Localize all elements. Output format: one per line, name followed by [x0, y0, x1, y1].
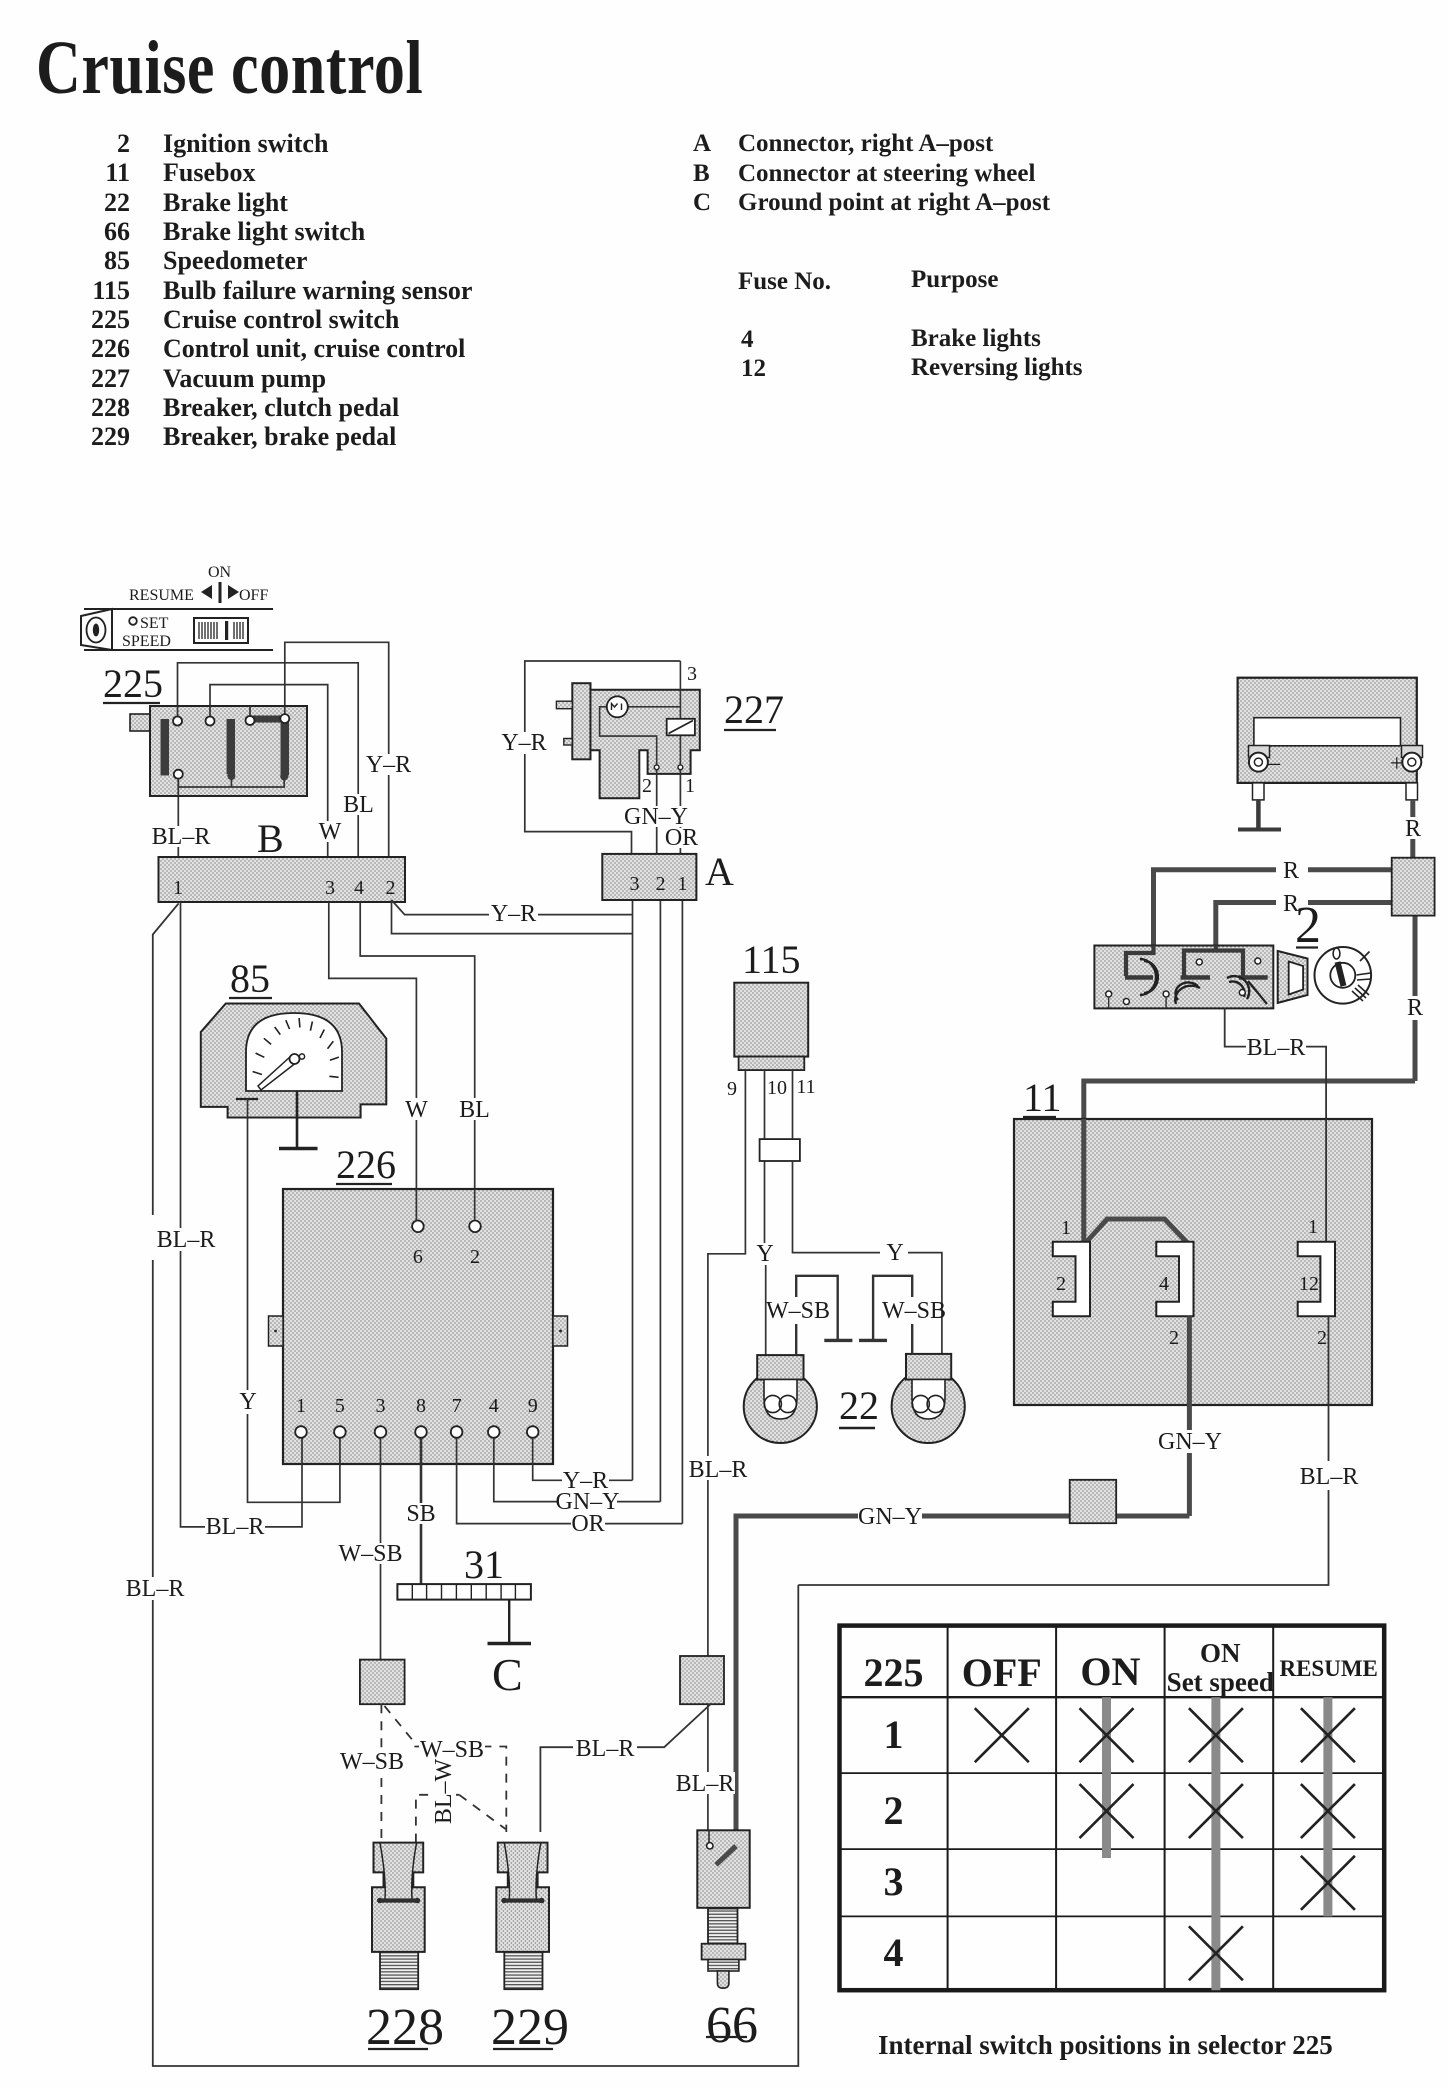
- dashed wire W-SB junction diagonal to 229: [385, 1706, 415, 1742]
- svg-text:SET: SET: [140, 615, 169, 632]
- wire B pin3 jog to 226 pin6 (W): [329, 902, 417, 1221]
- svg-text:2: 2: [1056, 1273, 1066, 1295]
- label OR (pin7): [571, 1513, 605, 1534]
- battery: [1238, 678, 1417, 783]
- wire SB 226 pin8 to ground strip 31: [420, 1438, 423, 1584]
- svg-text:2: 2: [656, 873, 666, 895]
- svg-text:6: 6: [413, 1246, 423, 1268]
- svg-text:R: R: [1405, 816, 1421, 842]
- 226 top pins 6 and 2: [412, 1221, 424, 1233]
- ignition switch 2 box: [1094, 946, 1273, 1009]
- junction box on GN-Y run: [1070, 1480, 1117, 1523]
- label BL-R (left loop upper): [158, 1228, 215, 1251]
- svg-text:BL–R: BL–R: [1300, 1464, 1359, 1490]
- svg-text:11: 11: [1023, 1075, 1062, 1120]
- legend fuse table: [738, 266, 1083, 382]
- wire A pin3 vertical down to 226 pin9 level: [632, 900, 634, 1480]
- label W-SB (pin3): [341, 1543, 400, 1564]
- svg-text:1: 1: [1308, 1216, 1318, 1238]
- label BL-W (rotated): [432, 1764, 455, 1821]
- svg-text:BL–R: BL–R: [152, 824, 211, 850]
- svg-text:RESUME: RESUME: [1279, 1656, 1377, 1681]
- pump pin circles: [654, 765, 659, 770]
- svg-text:1: 1: [884, 1712, 904, 1757]
- svg-text:GN–Y: GN–Y: [1158, 1429, 1222, 1455]
- wire R junction down right side: [1413, 916, 1418, 996]
- svg-text:226: 226: [336, 1142, 396, 1187]
- svg-text:228: 228: [366, 1999, 444, 2056]
- breaker 228 body: [372, 1843, 425, 1990]
- svg-text:5: 5: [335, 1395, 345, 1417]
- svg-text:229: 229: [491, 1999, 569, 2056]
- svg-text:31: 31: [464, 1542, 504, 1587]
- svg-text:BL–R: BL–R: [157, 1227, 216, 1253]
- svg-text:12: 12: [741, 355, 766, 382]
- svg-text:3: 3: [630, 873, 640, 895]
- breaker 229 body: [496, 1843, 549, 1990]
- ground strip 31: [397, 1584, 531, 1600]
- svg-text:W–SB: W–SB: [338, 1541, 402, 1567]
- svg-text:Y: Y: [756, 1241, 773, 1267]
- svg-text:22: 22: [104, 188, 130, 217]
- svg-text:SB: SB: [406, 1501, 435, 1527]
- brake light switch 66 body: [697, 1830, 749, 1908]
- thick wire GN-Y fuse4 down: [1187, 1316, 1192, 1516]
- svg-text:Cruise control: Cruise control: [36, 26, 423, 110]
- svg-text:22: 22: [839, 1383, 879, 1428]
- junction box above 228: [360, 1660, 405, 1705]
- svg-text:C: C: [693, 189, 711, 216]
- big loop wire BL-R left side and bottom: [153, 903, 799, 2066]
- inline connector on Y wires: [760, 1139, 800, 1161]
- label SB: [406, 1503, 436, 1524]
- svg-text:8: 8: [416, 1395, 426, 1417]
- connector A bar: [602, 854, 696, 900]
- svg-text:2: 2: [470, 1246, 480, 1268]
- label Y-R (pin9): [562, 1470, 609, 1491]
- svg-text:66: 66: [706, 1997, 758, 2054]
- svg-text:2: 2: [117, 129, 130, 158]
- svg-text:A: A: [705, 849, 734, 894]
- brake light bulb right: [892, 1370, 965, 1443]
- wire B pin4 jog to 226 pin2 (BL): [360, 902, 475, 1221]
- svg-text:4: 4: [354, 877, 364, 899]
- label Y-R (B2 to A3): [489, 903, 538, 924]
- label BL (to 226 pin2): [460, 1098, 489, 1120]
- svg-text:BL–R: BL–R: [1247, 1035, 1306, 1061]
- svg-text:Ignition switch: Ignition switch: [163, 129, 329, 158]
- 66 lower collar: [708, 1960, 739, 1972]
- svg-text:Breaker, clutch pedal: Breaker, clutch pedal: [163, 393, 399, 422]
- brake light bulb left: [744, 1370, 817, 1443]
- 226 bottom pin circles: [295, 1426, 538, 1438]
- wire Y-R 226 pin9: [533, 1438, 633, 1481]
- battery minus terminal: [1249, 746, 1270, 800]
- control unit 226 side tabs: [269, 1316, 284, 1346]
- table internal switch positions: [840, 1626, 1385, 1991]
- 66 nut: [702, 1944, 746, 1960]
- ground at battery minus: [1256, 800, 1261, 828]
- svg-text:225: 225: [864, 1650, 924, 1695]
- svg-text:4: 4: [489, 1395, 499, 1417]
- svg-text:OR: OR: [665, 825, 698, 851]
- wire BL-R fuse12 down and across: [798, 1316, 1328, 1585]
- svg-text:3: 3: [376, 1395, 386, 1417]
- svg-text:ON: ON: [1200, 1638, 1241, 1668]
- svg-text:227: 227: [724, 687, 784, 732]
- svg-text:Y: Y: [886, 1240, 903, 1266]
- svg-text:Purpose: Purpose: [911, 266, 999, 293]
- label W-SB (diagonal): [419, 1738, 485, 1760]
- svg-text:Fuse No.: Fuse No.: [738, 268, 831, 295]
- svg-text:C: C: [492, 1649, 523, 1700]
- switch 225 lower contact blobs: [227, 772, 235, 780]
- connector A pin numbers: [630, 873, 688, 895]
- 66 plunger tip: [717, 1971, 729, 1988]
- dashed wire BL-W 228 to 229: [416, 1795, 432, 1843]
- svg-text:66: 66: [104, 217, 130, 246]
- svg-text:225: 225: [103, 661, 163, 706]
- svg-text:3: 3: [884, 1859, 904, 1904]
- wire W-SB 226 pin3 to junction: [380, 1438, 382, 1660]
- svg-text:Internal switch positions in s: Internal switch positions in selector 22…: [878, 2030, 1333, 2060]
- label GN-Y (pump): [627, 806, 686, 827]
- svg-text:Y: Y: [239, 1389, 256, 1415]
- legend component list: [91, 129, 472, 451]
- svg-text:226: 226: [91, 334, 130, 363]
- svg-text:12: 12: [1299, 1273, 1319, 1295]
- svg-text:1: 1: [173, 877, 183, 899]
- svg-text:2: 2: [1295, 897, 1321, 954]
- svg-text:Breaker, brake pedal: Breaker, brake pedal: [163, 422, 396, 451]
- switch 225 contact circles: [173, 714, 289, 779]
- svg-text:2: 2: [1169, 1327, 1179, 1349]
- bulb failure sensor 115 body: [734, 983, 808, 1057]
- wire BL-R ignition to fuse 12: [1225, 1008, 1246, 1046]
- svg-text:1: 1: [685, 775, 695, 797]
- svg-text:BL–W: BL–W: [431, 1758, 457, 1824]
- thin wire into fuse 12: [1325, 1119, 1327, 1242]
- svg-text:9: 9: [727, 1078, 737, 1100]
- svg-text:85: 85: [104, 246, 130, 275]
- svg-text:Y–R: Y–R: [366, 752, 411, 778]
- fuse 2: [1053, 1242, 1090, 1317]
- svg-text:225: 225: [91, 305, 130, 334]
- svg-text:1: 1: [296, 1395, 306, 1417]
- ground hook W-SB right bulb: [873, 1276, 912, 1354]
- svg-text:BL–R: BL–R: [126, 1576, 185, 1602]
- wire from contact c2 to B pin 3 (W): [210, 685, 328, 857]
- table X marks: [975, 1708, 1355, 1980]
- wire Y speedometer to 226 pin5: [248, 1099, 340, 1502]
- svg-text:Reversing lights: Reversing lights: [911, 354, 1083, 381]
- svg-text:Y–R: Y–R: [491, 901, 536, 927]
- svg-text:2: 2: [1317, 1327, 1327, 1349]
- svg-text:2: 2: [642, 775, 652, 797]
- svg-text:BL–R: BL–R: [206, 1514, 265, 1540]
- ground at speedometer: [296, 1091, 299, 1149]
- svg-text:W–SB: W–SB: [340, 1749, 404, 1775]
- wire GN-Y pump pin2 to A pin2: [656, 770, 658, 854]
- svg-text:W: W: [319, 819, 342, 845]
- svg-text:SPEED: SPEED: [122, 633, 171, 650]
- wire from contact b1 to B pin 1 (BL-R): [177, 779, 179, 858]
- svg-text:1: 1: [1061, 1217, 1071, 1239]
- label GN-Y (pin4): [558, 1491, 617, 1512]
- svg-text:10: 10: [767, 1077, 787, 1099]
- thick feed wire into fuse 2: [1081, 1119, 1086, 1242]
- svg-text:228: 228: [91, 393, 130, 422]
- label Y-R (pump loop): [500, 732, 548, 754]
- pump relay valve: [667, 719, 695, 736]
- svg-text:B: B: [257, 816, 284, 861]
- label W (to 226 pin6): [403, 1098, 430, 1120]
- control unit 226 box: [283, 1189, 553, 1464]
- svg-text:ON: ON: [208, 564, 232, 581]
- label W: [317, 821, 343, 842]
- wire OR pump pin1 to A pin1: [679, 770, 681, 854]
- svg-text:OFF: OFF: [962, 1650, 1042, 1695]
- label BL: [344, 794, 373, 815]
- svg-text:+: +: [1390, 751, 1404, 777]
- svg-text:4: 4: [741, 326, 754, 353]
- svg-text:BL: BL: [459, 1097, 490, 1123]
- wire Y 115 pin11 to right bulb: [793, 1070, 942, 1354]
- speedometer tick marks: [253, 1018, 339, 1077]
- svg-text:11: 11: [796, 1076, 815, 1098]
- svg-text:4: 4: [884, 1930, 904, 1975]
- wire Y 115 pin10 to left bulb: [765, 1070, 766, 1355]
- connector B pin numbers: [173, 877, 396, 899]
- svg-text:Ground point at right A–post: Ground point at right A–post: [738, 189, 1051, 216]
- junction box at battery: [1392, 858, 1435, 916]
- fuse 12: [1298, 1242, 1335, 1317]
- svg-text:2: 2: [884, 1788, 904, 1833]
- svg-text:Brake light switch: Brake light switch: [163, 217, 366, 246]
- svg-text:GN–Y: GN–Y: [858, 1504, 922, 1530]
- label BL-R (to 226 pin1): [205, 1516, 265, 1537]
- ground hook W-SB left bulb: [796, 1276, 838, 1355]
- wire A pin1 vertical down to 226 pin7 level: [681, 900, 683, 1524]
- ignition contact bars: [1125, 975, 1268, 980]
- vacuum pump 227 mount plate: [572, 683, 590, 759]
- switch 225 body: [130, 706, 307, 796]
- speedometer 85 housing: [201, 1004, 386, 1118]
- svg-text:Brake light: Brake light: [163, 188, 288, 217]
- svg-text:B: B: [693, 160, 710, 187]
- stalk barcode speed scale: [194, 618, 248, 643]
- svg-text:Y–R: Y–R: [563, 1468, 608, 1494]
- switch 225 internal link wire: [178, 779, 284, 788]
- svg-text:R: R: [1283, 858, 1299, 884]
- svg-text:Connector at steering wheel: Connector at steering wheel: [738, 160, 1035, 187]
- svg-text:1: 1: [678, 873, 688, 895]
- battery plus terminal: [1402, 746, 1423, 800]
- wire R lower to ignition: [1216, 903, 1392, 953]
- 66 threaded neck: [708, 1909, 738, 1944]
- svg-text:85: 85: [230, 956, 270, 1001]
- speedometer dial face: [246, 1013, 342, 1091]
- switch 225 stalk lever icon: [81, 609, 273, 650]
- wire OR 226 pin7 to A pin1: [457, 1438, 683, 1524]
- svg-text:11: 11: [105, 158, 130, 187]
- wire Y-R second path from B pin2 down: [392, 900, 633, 934]
- junction box above 66: [680, 1656, 724, 1704]
- svg-text:W: W: [405, 1097, 428, 1123]
- thick bridge fuse2 to fuse4: [1085, 1219, 1187, 1244]
- wire R upper to ignition: [1154, 870, 1392, 952]
- pump internal wiring: [600, 707, 657, 765]
- vacuum pump 227 left tabs: [556, 701, 572, 709]
- svg-text:OFF: OFF: [239, 587, 268, 604]
- svg-text:A: A: [693, 130, 711, 157]
- label BL-R (66 wire): [675, 1772, 735, 1794]
- svg-text:Control unit, cruise control: Control unit, cruise control: [163, 334, 465, 363]
- stalk labels ON RESUME OFF SET SPEED: [122, 564, 268, 650]
- speedometer sender terminal: [236, 1098, 258, 1100]
- svg-text:BL–R: BL–R: [676, 1771, 735, 1797]
- svg-text:Cruise control switch: Cruise control switch: [163, 305, 400, 334]
- wire R thick horizontal to fusebox feed: [1084, 1081, 1415, 1242]
- wire Y-R loop pump pin3: [525, 661, 681, 854]
- svg-text:–: –: [1267, 750, 1281, 776]
- svg-text:R: R: [1407, 995, 1423, 1021]
- svg-text:BL–R: BL–R: [689, 1457, 748, 1483]
- fuse pin and number labels: [1056, 1216, 1327, 1349]
- wire BL-R 115 pin9 down to 66: [708, 1070, 746, 1656]
- svg-text:227: 227: [91, 364, 130, 393]
- fusebox 11 box: [1014, 1119, 1372, 1405]
- stalk direction arrows: [201, 582, 239, 603]
- svg-text:3: 3: [687, 663, 697, 685]
- svg-text:7: 7: [452, 1395, 462, 1417]
- 66 lever: [716, 1846, 736, 1865]
- connector B bar: [159, 857, 406, 902]
- fuse 4: [1156, 1242, 1193, 1317]
- svg-text:Vacuum pump: Vacuum pump: [163, 364, 326, 393]
- dashed wire W-SB junction to 228: [380, 1704, 382, 1842]
- svg-text:115: 115: [742, 937, 801, 982]
- wire R battery plus to junction: [1410, 800, 1415, 817]
- table gray position bars: [1102, 1697, 1111, 1858]
- svg-text:4: 4: [1159, 1273, 1169, 1295]
- pump motor M: [607, 696, 628, 717]
- svg-text:2: 2: [386, 877, 396, 899]
- svg-text:Connector, right A–post: Connector, right A–post: [738, 130, 994, 157]
- ignition key face: [1315, 947, 1372, 1004]
- ignition internal bus: [1126, 946, 1243, 977]
- switch 225 internal contact bars: [161, 716, 290, 776]
- ground C below strip: [508, 1600, 510, 1642]
- 226 bottom pin numbers: [296, 1395, 538, 1417]
- label Y-R: [365, 754, 412, 775]
- svg-text:Fusebox: Fusebox: [163, 158, 255, 187]
- svg-text:RESUME: RESUME: [129, 587, 194, 604]
- svg-text:Speedometer: Speedometer: [163, 246, 307, 275]
- legend connectors A B C: [693, 130, 1051, 216]
- svg-text:BL–R: BL–R: [576, 1736, 635, 1762]
- label OR (pump): [665, 828, 698, 848]
- ignition contact arcs: [1140, 959, 1249, 1004]
- wire BL-R junction to 66 terminal: [707, 1704, 709, 1842]
- switch 225 contact stubs to box edge: [178, 706, 285, 796]
- ignition small terminals: [1106, 958, 1261, 1005]
- svg-text:Y–R: Y–R: [501, 730, 546, 756]
- ignition key holder: [1278, 951, 1308, 1003]
- svg-text:9: 9: [528, 1395, 538, 1417]
- svg-text:115: 115: [92, 276, 130, 305]
- svg-text:Brake lights: Brake lights: [911, 325, 1041, 352]
- svg-text:Set speed: Set speed: [1167, 1667, 1274, 1697]
- label BL-R (225 to B pin1): [151, 826, 211, 847]
- svg-text:W–SB: W–SB: [766, 1298, 830, 1324]
- wire Y-R from B pin2 to A pin3: [392, 900, 633, 915]
- svg-text:Bulb failure warning sensor: Bulb failure warning sensor: [163, 276, 472, 305]
- vacuum pump 227 body: [591, 690, 700, 798]
- thick wire GN-Y horizontal to 66: [736, 1516, 1189, 1846]
- wire BL-R 229 to junction 66: [540, 1703, 711, 1832]
- wire A pin2 vertical down to 226 pin4 level: [659, 900, 661, 1502]
- svg-text:ON: ON: [1080, 1649, 1140, 1694]
- wire BL-R B pin1 down to 226 pin1: [181, 902, 303, 1527]
- speedometer needle: [258, 1056, 297, 1090]
- wire GN-Y 226 pin4 to A pin2: [494, 1438, 661, 1502]
- wire from contact c4 to B pin 2 (Y-R): [285, 642, 389, 857]
- svg-text:BL: BL: [343, 792, 374, 818]
- svg-text:W–SB: W–SB: [882, 1298, 946, 1324]
- svg-text:229: 229: [91, 422, 130, 451]
- wire from contact c1 to B pin 4 (BL): [178, 663, 359, 857]
- svg-text:3: 3: [325, 877, 335, 899]
